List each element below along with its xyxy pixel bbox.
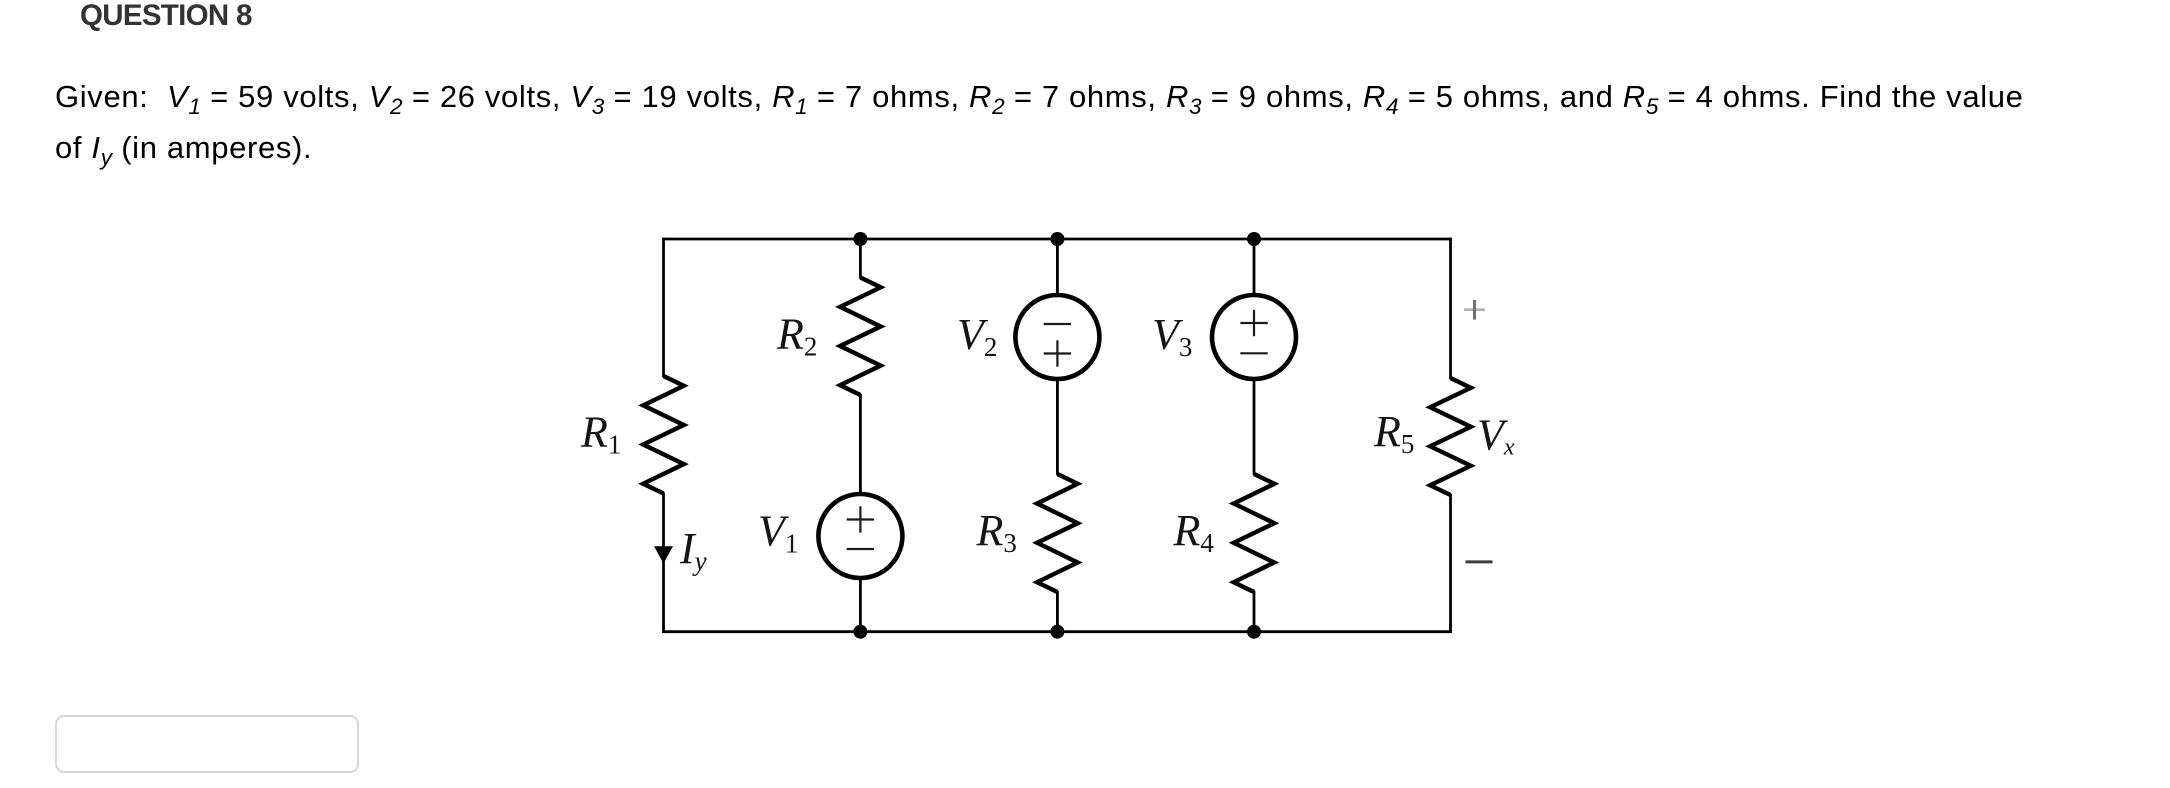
minus sign Vx <box>1466 560 1493 563</box>
wire branch V2R3 middle <box>1056 379 1059 476</box>
plus sign Vx <box>1464 308 1485 311</box>
arrow Iy <box>654 546 673 563</box>
wire left upper segment <box>662 238 665 377</box>
wire right upper segment <box>1449 238 1452 379</box>
question header <box>80 1 252 31</box>
svg-text:V2: V2 <box>957 310 997 362</box>
wire bottom node rail <box>662 630 1452 633</box>
svg-text:R3: R3 <box>976 506 1017 558</box>
svg-text:R5: R5 <box>1373 407 1414 459</box>
problem statement <box>55 73 2024 175</box>
V1 plus sign <box>847 518 874 520</box>
svg-text:R1: R1 <box>580 408 621 460</box>
V1 minus sign <box>847 548 874 550</box>
wire branch V3R4 middle <box>1253 379 1256 476</box>
wire branch V3R4 top <box>1253 239 1256 296</box>
node bottom branch V2R3 <box>1050 625 1064 639</box>
source V1 circle <box>818 494 902 578</box>
node bottom branch V3R4 <box>1247 625 1261 639</box>
wire branch V1R2 top <box>859 239 862 279</box>
wire branch V1R2 middle <box>859 394 862 495</box>
V2 minus sign <box>1044 323 1071 325</box>
wire top node rail <box>662 238 1452 241</box>
source V2 circle <box>1015 295 1099 379</box>
answer input box <box>55 715 359 773</box>
V3 plus sign <box>1240 322 1267 324</box>
svg-text:R4: R4 <box>1173 506 1215 558</box>
svg-text:Iy: Iy <box>679 524 707 576</box>
svg-text:R2: R2 <box>776 309 817 361</box>
svg-text:V3: V3 <box>1152 310 1192 362</box>
node top branch V2R3 <box>1050 232 1064 246</box>
V3 minus sign <box>1240 352 1267 354</box>
svg-text:Vx: Vx <box>1477 411 1515 461</box>
source V3 circle <box>1212 295 1296 379</box>
resistor R2 <box>840 278 881 396</box>
node top branch V3R4 <box>1247 232 1261 246</box>
node bottom branch V1R2 <box>853 625 867 639</box>
V2 plus sign <box>1044 352 1071 354</box>
resistor R5 <box>1430 378 1471 495</box>
wire right lower segment <box>1449 494 1452 633</box>
resistor R4 <box>1234 474 1275 592</box>
wire left lower segment <box>662 493 665 634</box>
wire branch V2R3 bottom <box>1056 591 1059 632</box>
node top branch V1R2 <box>853 232 867 246</box>
resistor R1 <box>643 376 684 494</box>
wire branch V3R4 bottom <box>1253 591 1256 632</box>
svg-text:V1: V1 <box>758 506 798 558</box>
wire branch V2R3 top <box>1056 239 1059 296</box>
wire branch V1R2 bottom <box>859 578 862 632</box>
resistor R3 <box>1037 474 1078 592</box>
